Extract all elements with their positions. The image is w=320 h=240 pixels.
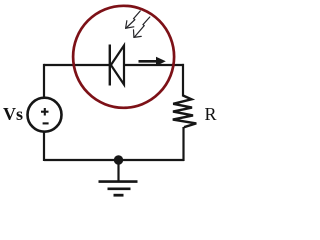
light arrow 2 (incident light, lower-right squiggle arrow) — [134, 17, 150, 37]
resistor R: zigzag — [173, 96, 197, 128]
svg-text:Vs: Vs — [3, 104, 23, 124]
current arrow (thick, pointing right) — [139, 57, 166, 66]
wire right vertical lower (resistor bottom to corner) — [182, 127, 184, 161]
wire left vertical (top corner down to bottom corner, through Vs) — [43, 64, 45, 161]
ground stub wire — [117, 160, 119, 181]
wire top right (diode to top-right corner) — [124, 64, 184, 66]
svg-text:R: R — [205, 104, 217, 124]
wire top (node between source + and photodiode anode side) — [44, 64, 110, 66]
highlight circle (dark red) around photodiode — [73, 6, 174, 108]
wire bottom (right corner to left corner) — [44, 159, 184, 161]
photodiode D1: triangle (anode, pointing left) — [111, 46, 124, 85]
junction node (bottom) — [114, 155, 123, 164]
voltage source Vs: plus sign — [41, 108, 49, 116]
ground symbol — [99, 182, 138, 196]
voltage source Vs: circle — [28, 98, 62, 132]
light arrow 1 (incident light, upper-left squiggle arrow) — [126, 11, 141, 28]
wire right vertical upper (corner to resistor top) — [182, 64, 184, 97]
photodiode D1: cathode bar — [109, 45, 111, 86]
voltage source Vs: minus sign — [43, 122, 49, 124]
